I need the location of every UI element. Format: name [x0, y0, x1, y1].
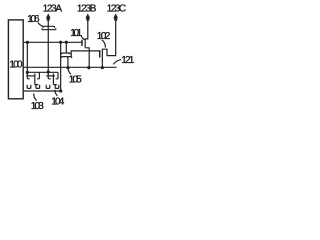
leader line for 106 — [38, 23, 44, 27]
wire: lower-left rail R3 — [27, 71, 58, 73]
junction at rail R3 and 123A drop — [47, 70, 50, 73]
terminal node 123C — [114, 18, 117, 21]
wire: middle rail R2 — [23, 66, 116, 68]
junction at gate rail R4 end — [59, 89, 62, 92]
leader line for 103 — [34, 93, 37, 100]
terminal arrow 123C — [113, 13, 118, 18]
wire: top rail R1 — [23, 41, 82, 43]
svg-text:101: 101 — [70, 28, 82, 39]
svg-text:123C: 123C — [107, 4, 127, 15]
svg-text:123A: 123A — [43, 4, 63, 15]
wire: 102 source down to rail R2 — [101, 59, 103, 68]
transistor 104 — [46, 72, 59, 88]
transistor 102 — [100, 49, 103, 59]
junction at rail R2 and capacitor drop — [66, 66, 69, 69]
terminal node 123B — [86, 18, 89, 21]
transistor 101 — [82, 38, 85, 47]
leader line for 104 — [55, 90, 58, 96]
terminal node 123A — [47, 18, 50, 21]
junction at rail R1 and vertical x60 — [59, 41, 62, 44]
svg-text:104: 104 — [51, 97, 65, 108]
svg-text:103: 103 — [31, 101, 44, 112]
junction at rail R1 and vertical x27 — [26, 41, 29, 44]
wire: 123B terminal drop to transistor 101 drain — [85, 16, 88, 39]
junction at rail R2 and 102 source — [101, 66, 104, 69]
leader line for 105 — [68, 69, 71, 75]
terminal arrow 123B — [85, 13, 90, 18]
wire: vertical from top rail to gate rail R4 — [60, 42, 62, 91]
transistor 103 — [26, 72, 39, 88]
junction at rail R1 and capacitor feed — [65, 41, 68, 44]
wire: capacitor bottom drop to rail R2 — [67, 57, 69, 68]
junction at rail R2 and 101 source — [87, 66, 90, 69]
wire: vertical from node at (27,42) to rail R3 — [26, 42, 28, 72]
svg-text:105: 105 — [69, 74, 82, 85]
driver block 100 — [8, 20, 23, 99]
svg-text:123B: 123B — [77, 4, 97, 15]
wire: 123C terminal drop and elbow to transistor 102 drain — [103, 16, 116, 55]
leader line for 102 — [102, 40, 106, 48]
leader line for 121 — [113, 60, 121, 65]
svg-text:100: 100 — [9, 59, 23, 70]
capacitor 105 — [62, 53, 72, 58]
terminal arrow 123A — [46, 13, 51, 18]
svg-text:121: 121 — [121, 55, 134, 66]
wire: capacitor top feed — [65, 42, 67, 53]
wire: gate rail R4 — [23, 90, 61, 92]
wire: 123A terminal drop through transistor 106 to rail R3 — [47, 16, 49, 72]
svg-text:106: 106 — [27, 14, 40, 25]
leader line for 101 — [81, 36, 85, 40]
wire: capacitor to gate of 102 — [71, 51, 99, 57]
transistor 106 (horizontal bars on 123A line) — [42, 26, 56, 29]
wire: 101 source down to rail R2 — [85, 48, 89, 68]
svg-text:102: 102 — [97, 31, 111, 42]
junction at rail R3 left — [26, 71, 29, 74]
